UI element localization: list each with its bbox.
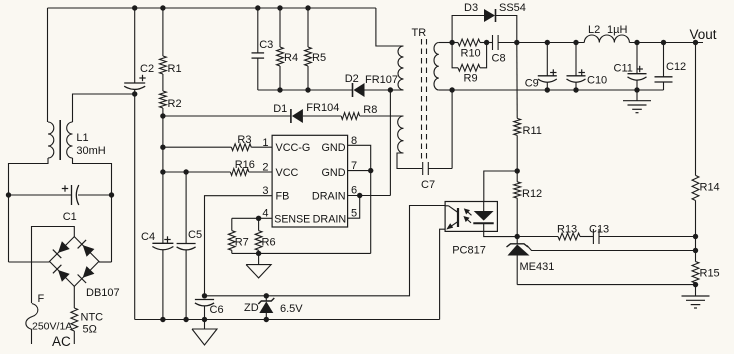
diode bridge top-right: [78, 240, 95, 257]
wire opto cathode: [484, 223, 518, 236]
label Vout: [690, 27, 717, 42]
capacitor C10: [567, 43, 586, 91]
svg-text:FR104: FR104: [306, 102, 339, 114]
wire pin4: [232, 217, 272, 219]
pin number 3: [262, 185, 268, 197]
label U1 SENSE: [274, 213, 310, 225]
label U1 VCC: [276, 167, 299, 179]
wire R11 to R12: [516, 135, 518, 181]
svg-text:VCC: VCC: [276, 167, 299, 179]
inductor L1 right winding: [67, 122, 73, 158]
resistor R12: [514, 182, 521, 198]
node C6 top: [202, 293, 207, 298]
svg-text:NTC: NTC: [81, 312, 104, 324]
pin number 2: [262, 161, 268, 173]
svg-text:R1: R1: [168, 63, 182, 75]
node ZD top: [264, 293, 269, 298]
capacitor C13: [593, 229, 599, 244]
diode bridge bottom-left: [53, 265, 70, 282]
wire C8 to output node: [498, 42, 517, 44]
capacitor C6: [195, 300, 214, 320]
capacitor C9: [538, 43, 557, 91]
node R6 bottom: [256, 251, 261, 256]
svg-text:D3: D3: [464, 2, 478, 14]
ground right earth: [682, 296, 710, 308]
node C1 right: [109, 192, 114, 197]
wire primary ground rail: [135, 319, 440, 321]
svg-text:Vout: Vout: [690, 27, 717, 42]
wire R16 to pin2: [249, 171, 272, 173]
label C3: [259, 39, 273, 51]
label R9: [464, 73, 478, 85]
svg-text:R4: R4: [284, 52, 298, 64]
svg-text:1µH: 1µH: [607, 24, 627, 36]
svg-text:C8: C8: [492, 53, 506, 65]
node top rail C3 junction: [255, 5, 260, 10]
capacitor C8: [493, 35, 499, 50]
wire DC minus bus: [134, 94, 136, 320]
node output plus: [514, 40, 519, 45]
label TR: [412, 27, 427, 39]
wire pin1: [163, 146, 232, 148]
label R15: [700, 268, 720, 280]
wire FB to opto collector: [205, 206, 446, 296]
label C10: [587, 75, 607, 87]
node R15 ground: [693, 282, 698, 287]
op-amp U1 box: [272, 135, 348, 227]
wire VCC chain: [162, 116, 164, 243]
node snubber junction: [484, 40, 489, 45]
inductor L2: [584, 35, 629, 42]
label F: [38, 293, 45, 305]
pin number 8: [351, 135, 357, 147]
fuse F: [26, 304, 38, 345]
svg-text:R12: R12: [522, 188, 542, 200]
node C5 ground: [183, 317, 188, 322]
node secondary top: [449, 40, 454, 45]
label ME431: [520, 261, 555, 273]
resistor R4: [277, 8, 284, 90]
wire sense ground rail: [232, 252, 371, 254]
transformer TR secondary winding: [434, 43, 439, 91]
svg-text:ME431: ME431: [520, 261, 555, 273]
wire bridge right corner to DC bus: [99, 261, 112, 263]
label C13: [589, 224, 609, 236]
resistor R11: [514, 118, 521, 135]
wire bridge left corner to DC bus: [9, 261, 50, 263]
svg-text:C1: C1: [63, 211, 77, 223]
diode PC817 led: [473, 202, 493, 224]
wire L1 right bottom to C1 right: [73, 158, 112, 262]
wire output rail right: [629, 42, 703, 44]
node C12 top: [661, 40, 666, 45]
wire TL431 ref line: [527, 246, 696, 251]
svg-text:TR: TR: [412, 27, 427, 39]
wire aux bottom to C7: [397, 153, 422, 169]
node C5 top: [183, 169, 188, 174]
label R13: [557, 224, 577, 236]
svg-text:R6: R6: [262, 237, 276, 249]
resistor R3: [231, 144, 251, 151]
svg-text:R10: R10: [461, 48, 481, 60]
resistor R15: [692, 262, 699, 284]
label R11: [523, 125, 542, 137]
svg-text:F: F: [38, 293, 45, 305]
wire opto anode line: [484, 171, 517, 202]
node C10 top: [573, 40, 578, 45]
svg-text:R15: R15: [700, 268, 720, 280]
resistor R6: [255, 218, 262, 253]
svg-text:FR107: FR107: [365, 74, 398, 86]
label 5ohm: [83, 324, 97, 336]
node C9 bottom: [545, 87, 550, 92]
label ZD: [244, 302, 259, 314]
node C10 bottom: [573, 87, 578, 92]
capacitor C11: [628, 43, 647, 91]
node opto anode junction: [515, 168, 520, 173]
transformer TR core: [422, 39, 427, 160]
svg-text:C3: C3: [259, 39, 273, 51]
node R4 bottom: [277, 87, 282, 92]
svg-text:SENSE: SENSE: [274, 213, 310, 225]
wire Vout drop: [695, 43, 697, 176]
wire clamp bottom: [258, 89, 353, 91]
diode ZD 6.5V: [258, 296, 274, 320]
pin number 7: [351, 160, 357, 172]
capacitor C7: [423, 90, 452, 175]
svg-text:C5: C5: [188, 229, 202, 241]
svg-text:ZD: ZD: [244, 302, 259, 314]
ground secondary earth: [623, 90, 651, 113]
label C11: [614, 63, 633, 75]
label R12: [522, 188, 542, 200]
wire D3 branch up: [452, 16, 484, 43]
svg-text:R9: R9: [464, 73, 478, 85]
label U1 GND pin8: [322, 142, 346, 154]
wire pin2: [163, 171, 231, 173]
wire L1 right top to C2 bottom: [73, 94, 135, 122]
capacitor C2: [124, 8, 146, 94]
diode bridge top-left: [53, 241, 70, 258]
capacitor C4: [152, 236, 173, 319]
node R6 top: [256, 216, 261, 221]
label C5: [188, 229, 202, 241]
wire secondary top: [439, 42, 452, 44]
svg-text:DRAIN: DRAIN: [313, 213, 347, 225]
wire top rail step to transformer: [376, 8, 404, 46]
svg-text:C9: C9: [525, 78, 539, 90]
diode bridge bottom-right: [78, 266, 95, 283]
node top rail C2 junction: [132, 5, 137, 10]
node pin6 junction: [357, 193, 362, 198]
node R3 junction: [160, 145, 165, 150]
wire R14 bottom: [695, 201, 697, 262]
wire R15 bottom: [695, 283, 697, 296]
svg-text:6: 6: [351, 185, 357, 197]
label R5: [312, 52, 326, 64]
svg-text:L1: L1: [76, 132, 88, 144]
label D3: [464, 2, 478, 14]
wire pin5 drain: [348, 196, 360, 219]
resistor R7: [228, 218, 235, 253]
wire opto light arrows: [463, 208, 471, 222]
svg-text:D2: D2: [345, 73, 359, 85]
transistor PC817 phototransistor: [445, 206, 458, 230]
transformer TR aux winding: [398, 116, 404, 153]
label C9: [525, 78, 539, 90]
node C11 bottom: [634, 87, 639, 92]
label R16: [235, 159, 255, 171]
wire bridge top corner to fuse: [32, 227, 75, 304]
wire output rail left: [517, 42, 585, 44]
node C4 ground: [160, 317, 165, 322]
node C11 top: [634, 40, 639, 45]
pin number 5: [351, 208, 357, 220]
resistor R9: [452, 43, 487, 72]
wire L1 left bottom to C1 left: [9, 158, 49, 262]
node pin7 junction: [368, 168, 373, 173]
label U1 DRAIN pin6: [312, 191, 346, 203]
label NTC: [81, 312, 104, 324]
diode ME431 shunt: [507, 237, 530, 285]
label R1: [168, 63, 182, 75]
svg-text:L2: L2: [588, 24, 600, 36]
wire R10 to C8: [480, 42, 492, 44]
wire D3 to output: [496, 16, 517, 43]
node ZD bottom: [264, 317, 269, 322]
svg-text:C10: C10: [587, 75, 607, 87]
node R16 junction: [160, 169, 165, 174]
svg-text:C12: C12: [666, 61, 686, 73]
node top rail R4 junction: [277, 5, 282, 10]
label R4: [284, 52, 298, 64]
wire FB pin3: [205, 196, 273, 296]
svg-text:R11: R11: [523, 125, 542, 137]
wire left drop to L1: [47, 8, 49, 122]
svg-text:VCC-G: VCC-G: [276, 142, 311, 154]
svg-text:C13: C13: [589, 224, 609, 236]
label C12: [666, 61, 686, 73]
label C2: [140, 63, 154, 75]
svg-text:PC817: PC817: [452, 245, 486, 257]
wire bridge diamond: [50, 237, 99, 287]
svg-text:DRAIN: DRAIN: [312, 191, 346, 203]
label U1 DRAIN pin5: [313, 213, 347, 225]
node top rail R5 junction: [305, 5, 310, 10]
capacitor C1: [9, 185, 112, 205]
node secondary bottom: [449, 87, 454, 92]
label DB107: [86, 287, 120, 299]
label R10: [461, 48, 481, 60]
svg-text:R5: R5: [312, 52, 326, 64]
pin number 4: [262, 208, 268, 220]
label 250V/1A: [32, 321, 72, 333]
node TL431 cathode: [515, 234, 520, 239]
wire secondary bottom rail: [452, 89, 663, 91]
label C6: [210, 304, 224, 316]
svg-text:R7: R7: [235, 237, 249, 249]
node drain junction: [388, 87, 393, 92]
svg-text:5Ω: 5Ω: [83, 324, 97, 336]
label 30mH: [76, 145, 105, 157]
resistor R16: [230, 169, 248, 176]
wire R12 bottom: [516, 198, 518, 236]
diode D3 SS54: [484, 9, 496, 22]
svg-text:R8: R8: [363, 104, 377, 116]
label C8: [492, 53, 506, 65]
resistor R1: [160, 8, 167, 74]
label C4: [141, 231, 155, 243]
svg-text:AC: AC: [52, 334, 71, 349]
svg-text:6.5V: 6.5V: [280, 303, 303, 315]
svg-text:DB107: DB107: [86, 287, 120, 299]
wire R3 to pin1: [251, 146, 272, 148]
wire top rail: [48, 7, 376, 9]
resistor R2: [160, 74, 167, 116]
wire D2 to primary: [365, 89, 404, 91]
label R8: [363, 104, 377, 116]
svg-text:FB: FB: [276, 191, 290, 203]
wire R13 line: [517, 236, 558, 238]
svg-text:C4: C4: [141, 231, 155, 243]
node VCC D1 junction: [160, 113, 165, 118]
wire C13 to divider: [599, 236, 696, 238]
label C7: [421, 179, 435, 191]
resistor R13: [558, 233, 580, 240]
svg-text:C6: C6: [210, 304, 224, 316]
label L1: [76, 132, 88, 144]
op-amp PC817 box: [445, 202, 497, 232]
node Vout junction: [693, 40, 698, 45]
node R5 bottom: [305, 87, 310, 92]
diode D2 FR107: [353, 83, 365, 97]
capacitor C12: [655, 43, 673, 91]
inductor L1 core bar: [59, 120, 61, 160]
label D2: [345, 73, 359, 85]
label PC817: [452, 245, 486, 257]
svg-text:C2: C2: [140, 63, 154, 75]
svg-text:C11: C11: [614, 63, 633, 75]
transformer TR primary winding: [398, 46, 403, 90]
label R2: [168, 98, 182, 110]
node top rail R1 junction: [160, 5, 165, 10]
label FR107: [365, 74, 398, 86]
svg-text:GND: GND: [322, 167, 346, 179]
label U1 FB: [276, 191, 290, 203]
wire drain riser: [389, 90, 391, 196]
label R3: [237, 134, 251, 146]
wire opto emitter to ground rail: [440, 229, 445, 319]
svg-text:R13: R13: [557, 224, 577, 236]
ground primary triangle: [192, 320, 217, 346]
capacitor C5: [177, 172, 196, 320]
resistor R10: [452, 39, 480, 46]
label D1: [273, 103, 287, 115]
label SS54: [499, 2, 526, 14]
thermistor NTC: [71, 286, 78, 344]
node divider ref: [693, 248, 698, 253]
label AC: [52, 334, 71, 349]
svg-text:SS54: SS54: [499, 2, 526, 14]
label R7: [235, 237, 249, 249]
label C1: [63, 211, 77, 223]
capacitor C3: [252, 8, 265, 90]
diode D1 FR104: [291, 109, 303, 123]
node C2 bottom junction: [132, 91, 137, 96]
node divider R13: [693, 234, 698, 239]
svg-text:C7: C7: [421, 179, 435, 191]
wire D1 to R8: [303, 115, 341, 117]
wire R11 riser: [516, 43, 518, 119]
resistor R14: [692, 175, 699, 200]
node C1 left: [6, 192, 11, 197]
svg-text:R16: R16: [235, 159, 255, 171]
wire R8 to aux winding: [360, 115, 404, 117]
wire pin6 drain: [348, 195, 391, 197]
svg-text:D1: D1: [273, 103, 287, 115]
svg-text:250V/1A: 250V/1A: [32, 321, 72, 333]
label L2: [588, 24, 600, 36]
pin number 6: [351, 185, 357, 197]
svg-text:30mH: 30mH: [76, 145, 105, 157]
svg-text:R14: R14: [700, 182, 720, 194]
node C9 top: [545, 40, 550, 45]
resistor R5: [305, 8, 312, 90]
label R14: [700, 182, 720, 194]
label 1uH: [607, 24, 627, 36]
inductor L1 left winding: [48, 122, 54, 158]
wire TL431 anode line: [517, 284, 695, 286]
ground sense triangle: [246, 253, 271, 278]
wire pin7 gnd: [348, 170, 371, 172]
wire VCC to D1: [163, 115, 291, 117]
label R6: [262, 237, 276, 249]
wire secondary bottom: [439, 89, 452, 91]
svg-text:GND: GND: [322, 142, 346, 154]
label FR104: [306, 102, 339, 114]
svg-text:R3: R3: [237, 134, 251, 146]
label U1 VCC-G: [276, 142, 311, 154]
wire R13 to C13: [580, 236, 593, 238]
label 6.5V: [280, 303, 303, 315]
wire pin8 gnd: [348, 145, 371, 253]
svg-text:R2: R2: [168, 98, 182, 110]
label U1 GND pin7: [322, 167, 346, 179]
resistor R8: [341, 113, 359, 120]
pin number 1: [262, 137, 268, 149]
node C6 ground: [202, 317, 207, 322]
